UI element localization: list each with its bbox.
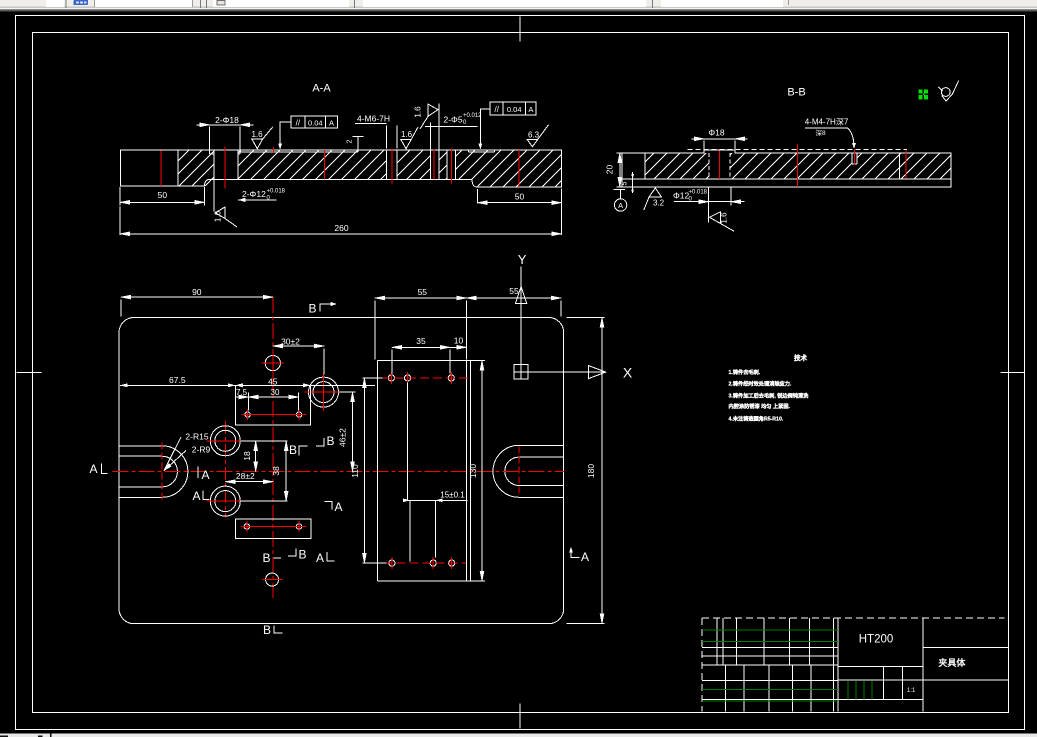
toolbar strip background [0,0,1037,9]
centering mark top [519,17,521,42]
svg-text:18: 18 [242,451,252,461]
svg-text:4-M4-7H深7: 4-M4-7H深7 [805,118,849,127]
red centerline right [905,151,907,179]
svg-text:A: A [618,201,623,210]
red centerline left slot [161,443,163,501]
svg-text:技术: 技术 [794,353,808,362]
parallelism frame 1 [291,116,338,128]
left grid top columns [717,618,834,665]
red centerline holes column [224,421,226,518]
svg-text:A: A [89,462,97,476]
svg-text:ByLayer: ByLayer [230,0,255,7]
bushing hole lower left [210,486,240,516]
red main horizontal centerline [113,471,565,473]
svg-text:深8: 深8 [815,128,826,137]
right U-slot inner [505,457,564,485]
svg-text:1.6: 1.6 [720,212,729,224]
middle sub columns [884,667,903,700]
svg-text:B: B [263,623,271,637]
left grid bottom columns [725,665,833,711]
right column rows [923,648,1009,680]
title block dashed top border [702,617,1005,619]
green lines bottom grid [702,689,838,701]
svg-text:A: A [581,550,589,564]
command window divider [50,734,52,737]
svg-text://: // [494,105,499,114]
svg-text:55: 55 [509,286,519,296]
toolbar right groove [788,0,789,5]
UCS icon origin box [514,365,528,380]
svg-text:260: 260 [334,223,348,233]
svg-text:B: B [262,551,270,565]
svg-text:随层色: 随层色 [676,0,696,7]
centering mark left [17,372,42,374]
parallelism frame 2 [490,102,536,115]
bushing hole upper left [210,426,240,456]
svg-text:2-R9: 2-R9 [192,445,211,455]
red centerline M6 hole [391,149,393,184]
svg-text:90: 90 [192,287,202,297]
svg-text:内腔涂防锈漆 均匀 上紧固.: 内腔涂防锈漆 均匀 上紧固. [729,402,791,410]
svg-text:4-M6-7H: 4-M6-7H [357,113,390,123]
plan view body rounded rectangle [119,318,564,624]
left U-slot inner [119,456,177,487]
svg-text:2-Φ12: 2-Φ12 [242,189,266,199]
svg-text:1.6: 1.6 [401,130,413,139]
title block dashed left border [701,618,703,711]
command prompt text top sliver [0,736,8,737]
svg-text:30±2: 30±2 [281,336,300,346]
toolbar lineweight combo [661,0,783,7]
svg-text:38: 38 [271,466,281,476]
svg-text:28±2: 28±2 [236,471,255,481]
slot plate upper holes [245,412,250,417]
svg-text:7.5: 7.5 [236,388,248,397]
middle sub row line [838,680,923,699]
red centerline hole Φ12 [224,147,226,189]
section A-A hatched areas [178,150,562,187]
section label A right lower [571,550,580,558]
material cell bottom line [838,666,923,668]
svg-text:20: 20 [605,165,615,175]
red centerline right slot [518,447,520,496]
top small hole [265,356,280,371]
svg-text:110: 110 [350,464,360,478]
svg-text:+0.018: +0.018 [267,189,286,195]
left U-slot outer [119,446,188,498]
red centerline mid [323,150,325,180]
surface finish 3.2 [644,188,662,210]
section label A mid [197,467,199,479]
slot plate upper [235,385,310,425]
svg-text:HT200: HT200 [859,634,894,646]
datum A symbol [614,190,626,199]
svg-text:B: B [326,434,334,448]
plate step line [622,178,951,180]
section B-B hatched areas [645,152,951,179]
right U-slot outer [493,445,564,497]
svg-text:1:1: 1:1 [907,688,916,694]
pocket second line [470,361,472,581]
svg-text:67.5: 67.5 [169,375,186,385]
toolbar color combo [213,0,349,7]
surface finish symbol top right [941,88,950,97]
red main vertical centerline [272,297,274,598]
svg-text:15±0.1: 15±0.1 [440,490,465,499]
bushing hole top right [309,377,339,407]
svg-text:1.6: 1.6 [414,106,423,118]
svg-text:X: X [623,365,633,381]
centering mark bottom [519,704,521,729]
left block boundary [644,153,646,179]
green verticals in scale cell [848,681,872,699]
command window top strip [0,734,1037,737]
toolbar linetype combo [363,0,646,7]
pocket top row holes [388,375,394,381]
svg-text:2-R15: 2-R15 [185,432,208,442]
slot plate lower [235,519,311,538]
svg-text:A: A [316,551,324,565]
svg-text:180: 180 [586,464,596,478]
svg-text:50: 50 [158,190,168,200]
svg-text:2.铸件经时效处理消除应力.: 2.铸件经时效处理消除应力. [729,380,792,388]
red centerline flange [160,151,162,187]
bottom small hole [266,573,279,586]
red centerline right [518,150,520,187]
dashed hole walls [709,153,730,179]
toolbar separator 2 [354,0,355,8]
svg-text:A: A [201,468,209,482]
svg-text:10: 10 [454,336,464,346]
svg-text:46±2: 46±2 [338,428,348,447]
svg-text:3.2: 3.2 [653,199,665,208]
green marker glyph [919,89,928,99]
svg-text:A: A [334,500,342,514]
svg-text:B: B [289,443,297,457]
svg-text:30: 30 [271,388,280,397]
section A-A outline [121,150,562,187]
svg-text:B: B [298,548,306,562]
section label A right-mid bracket [325,502,333,510]
top recess band left [241,150,359,152]
svg-text:3.铸件加工后去毛刺, 锐边倒钝清洗: 3.铸件加工后去毛刺, 锐边倒钝清洗 [729,391,810,399]
svg-text:A-A: A-A [312,83,331,95]
hole Φ5 walls a [430,150,439,179]
counterbore Φ18 edges [210,150,240,154]
title block vertical main dividers [838,618,923,711]
svg-text:A: A [329,119,334,128]
hole Φ5 walls b [447,150,456,179]
red centerline Φ5 b [450,149,452,184]
UCS icon X axis [528,371,589,373]
toolbar layer combo box [94,0,193,7]
svg-text://: // [296,119,301,128]
top recess band right [469,150,495,152]
section B-B outline [622,150,951,187]
hole 2-Φ12 right wall [237,150,239,179]
svg-text:夹具体: 夹具体 [938,657,966,668]
svg-text:2-Φ18: 2-Φ18 [215,115,239,125]
svg-text:0.04: 0.04 [507,105,522,114]
svg-text:1.铸件去毛刺.: 1.铸件去毛刺. [729,368,761,376]
left grid bottom rows [702,681,838,700]
toolbar blue layers icon [74,0,89,5]
red centerline hole [719,151,721,179]
red centerline mid tall [797,144,799,187]
svg-text:6.3: 6.3 [528,130,540,139]
svg-text:2-Φ5: 2-Φ5 [444,115,463,125]
parallelism leader 2 [480,109,490,144]
parallelism leader 1 [280,122,291,144]
tapped hole M6 walls [386,150,397,179]
svg-text:50: 50 [515,191,525,201]
svg-text:5: 5 [622,181,629,185]
tapped hole M4 walls [852,153,857,164]
hole 2-Φ12 left wall [213,150,215,179]
svg-text:+0.012: +0.012 [463,113,482,119]
svg-text:130: 130 [468,464,478,478]
svg-text:+0.018: +0.018 [689,190,708,196]
svg-text:35: 35 [416,336,426,346]
toolbar separator 1 [200,0,201,8]
pocket bottom row holes [389,560,395,566]
green lines top grid [702,630,838,642]
svg-text:55: 55 [418,287,428,297]
M4 slot clear [852,153,857,164]
svg-text:A: A [192,489,200,503]
pocket rectangle [378,361,486,581]
solid wall right [899,153,901,179]
svg-text:Φ12: Φ12 [673,191,690,201]
toolbar left combo fragment [46,0,64,7]
centering mark right [1001,372,1025,374]
red tick top surface [273,147,275,153]
section label B upper bracket pair [316,438,324,446]
svg-text:ByLayer: ByLayer [437,0,462,7]
slot plate lower holes [244,524,249,529]
svg-text:0.04: 0.04 [308,119,323,128]
svg-text:B: B [308,302,316,316]
red centerline Φ5 a [433,150,435,180]
svg-text:B-B: B-B [787,87,805,99]
dashed top surface line [688,148,908,150]
red centerline M4 [853,150,855,166]
svg-text:1.6: 1.6 [251,130,263,139]
left grid top rows [702,648,838,665]
svg-text:Y: Y [518,252,527,267]
svg-text:4.未注铸造圆角R5-R10.: 4.未注铸造圆角R5-R10. [729,414,784,422]
toolbar separator 3 [652,0,653,8]
left flange boundary [177,150,179,186]
svg-text:2: 2 [347,139,354,143]
svg-text:A: A [528,105,533,114]
svg-text:Φ18: Φ18 [708,128,725,138]
